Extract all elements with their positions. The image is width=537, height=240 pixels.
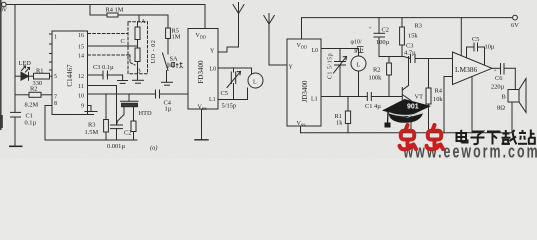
inductor L RX [351, 49, 366, 97]
resistor R1 1k RX [345, 97, 350, 133]
watermark graduation cap [382, 99, 431, 128]
svg-text:R2: R2 [373, 67, 380, 74]
svg-text:B: B [137, 68, 141, 75]
wire pin8 to ground rail [45, 106, 52, 141]
wire LED feed drop [14, 5, 16, 112]
wire pin16 dashed [88, 33, 128, 35]
svg-text:(a): (a) [150, 145, 157, 152]
svg-text:C3 0.1µ: C3 0.1µ [93, 64, 114, 71]
ground SA [162, 71, 173, 86]
IC U1 C14467 box [52, 31, 88, 115]
svg-text:16: 16 [78, 33, 84, 39]
svg-text:C1: C1 [26, 113, 33, 120]
ground C1 [10, 145, 22, 147]
svg-text:www.eeworm.com: www.eeworm.com [403, 142, 537, 159]
antenna TX [233, 3, 244, 48]
svg-text:JD3400: JD3400 [301, 80, 309, 102]
svg-text:R2: R2 [30, 86, 37, 93]
svg-text:L1: L1 [209, 97, 216, 103]
sensor chain vertical wire [137, 22, 139, 27]
capacitor C5 10u gain loop [467, 43, 485, 65]
svg-text:Y: Y [289, 65, 294, 71]
wire pin11 to C2 [88, 86, 117, 126]
svg-text:12: 12 [78, 74, 84, 80]
svg-text:C2: C2 [382, 27, 389, 34]
svg-text:LED: LED [19, 60, 32, 67]
wire LM386 minus input ground [444, 77, 453, 133]
svg-text:1µ: 1µ [165, 106, 172, 113]
op-amp U4 LM386 [453, 52, 493, 85]
svg-text:C3: C3 [406, 43, 413, 50]
capacitor C5 5/15p variable [227, 68, 241, 100]
svg-text:C6: C6 [495, 75, 502, 82]
svg-text:VSS: VSS [198, 105, 208, 112]
label ce shi (test) glyphs [168, 62, 183, 68]
svg-text:10: 10 [78, 94, 84, 100]
wire LM386 pin4 ground [471, 77, 473, 133]
svg-text:9V: 9V [0, 8, 8, 14]
wire Y pin to antenna [218, 47, 239, 52]
svg-text:VDD: VDD [196, 33, 207, 40]
svg-text:R3: R3 [415, 23, 422, 30]
capacitor C1 5/15p variable RX [334, 49, 347, 97]
svg-text:11: 11 [78, 84, 84, 90]
capacitor C2 100u RX [374, 18, 404, 57]
svg-text:5/15p: 5/15p [222, 103, 237, 110]
resistor R3 15k RX [400, 18, 405, 57]
svg-text:B: B [502, 94, 506, 101]
svg-text:R4: R4 [435, 88, 443, 95]
svg-text:4.7µ: 4.7µ [404, 50, 416, 57]
wire VSS to ground rail [300, 126, 302, 133]
resistor R2 100k [387, 57, 392, 97]
wire ground rail RX [301, 132, 513, 134]
wire LM386 pin6 supply [460, 18, 462, 56]
svg-text:VT: VT [415, 94, 424, 101]
IC U2 FD3400 box [188, 29, 218, 110]
wire VDD feed RX [301, 18, 303, 39]
svg-text:FD3400: FD3400 [197, 60, 205, 83]
svg-text:SA: SA [170, 56, 179, 63]
scan edge left border [0, 0, 2, 130]
capacitor C6 220u output [492, 64, 515, 90]
svg-text:1: 1 [354, 49, 357, 55]
svg-text:100µ: 100µ [376, 39, 390, 46]
svg-text:8.2M: 8.2M [25, 102, 39, 109]
svg-text:φ10/: φ10/ [351, 40, 362, 46]
svg-text:R3: R3 [88, 122, 95, 129]
svg-text:C14467: C14467 [66, 64, 74, 87]
antenna RX [264, 14, 275, 66]
svg-text:L0: L0 [210, 67, 217, 73]
svg-text:8: 8 [54, 101, 57, 107]
svg-text:VSS: VSS [297, 121, 307, 128]
resistor sensor upper [135, 27, 140, 40]
glyph xia [487, 132, 501, 145]
svg-text:C5: C5 [221, 90, 228, 97]
wire top rail 9V [6, 5, 205, 29]
capacitor C1 4u [367, 93, 402, 101]
svg-text:1k: 1k [336, 120, 343, 127]
wire tank bottom rail [218, 88, 248, 100]
svg-text:HTD: HTD [139, 110, 153, 117]
svg-text:C1 5/15p: C1 5/15p [328, 53, 334, 79]
svg-text:14: 14 [78, 54, 84, 60]
svg-text:L1: L1 [311, 97, 318, 103]
wire pin10 bus to C4 [88, 93, 155, 95]
glyph zhan [518, 130, 535, 144]
svg-text:10µ: 10µ [485, 44, 495, 51]
ground C3 [118, 81, 128, 84]
wire antenna to Y input [269, 64, 287, 66]
capacitor C4 1u [156, 90, 189, 98]
resistor sensor lower [135, 48, 140, 62]
watermark dian zi xia zai zhan glyphs [457, 130, 535, 145]
switch SA [163, 53, 169, 71]
svg-text:7: 7 [54, 95, 57, 101]
svg-text:1.5M: 1.5M [85, 129, 99, 136]
svg-text:C5: C5 [472, 36, 479, 43]
svg-text:+: + [494, 68, 497, 74]
scan blob left edge [0, 115, 3, 128]
svg-text:A: A [141, 18, 146, 25]
watermark red chong chong [400, 125, 444, 149]
resistor R2 8.2M [29, 92, 41, 97]
svg-text:C: C [121, 38, 125, 45]
svg-text:9: 9 [81, 104, 84, 110]
svg-text:100k: 100k [369, 75, 383, 82]
resonator HTD [117, 94, 139, 125]
resistor R5 1M [166, 15, 171, 54]
terminal 6V [513, 15, 518, 20]
wire pin15 to node C [88, 45, 138, 47]
svg-text:1: 1 [54, 35, 57, 41]
resistor R4 10k RX [426, 59, 431, 133]
capacitor C3 0.1u [103, 71, 123, 80]
svg-text:220µ: 220µ [491, 84, 505, 91]
wire node C segment [137, 40, 139, 49]
ground sensor chain [133, 80, 144, 83]
svg-text:8Ω: 8Ω [497, 105, 505, 112]
svg-text:R1: R1 [36, 68, 43, 75]
resistor R4 1M [90, 5, 168, 18]
glyph dian [457, 130, 468, 143]
IC1 pin numbers [54, 33, 84, 110]
wire pin14 dashed [88, 54, 130, 56]
capacitor C1 0.1u [11, 112, 21, 145]
wire node B segment [137, 62, 139, 81]
svg-text:LM386: LM386 [455, 65, 477, 74]
svg-text:10k: 10k [433, 96, 443, 103]
resistor HTD leg [131, 121, 136, 140]
ground FD3400 VSS [195, 109, 208, 140]
wire RX audio line L1 to base [321, 96, 367, 98]
wire pin12 to C3 [88, 74, 103, 76]
svg-text:0.001µ: 0.001µ [107, 143, 125, 150]
ground pin9 [85, 106, 97, 115]
wire RX tank top rail [321, 48, 359, 50]
svg-text:6V: 6V [511, 22, 519, 29]
transistor VT 9014 [402, 57, 411, 133]
wire top rail RX [302, 17, 513, 19]
resistor R1 330 [34, 73, 50, 79]
wire bottom rail TX [45, 139, 137, 141]
paper background [0, 0, 537, 159]
svg-text:R4 1M: R4 1M [106, 7, 124, 14]
paper noise [0, 0, 1, 1]
glyph zi [471, 132, 485, 145]
IC1 unused left pin ticks [50, 33, 53, 35]
svg-text:5: 5 [54, 74, 57, 80]
inductor L TX [248, 73, 263, 88]
svg-text:Y: Y [210, 49, 215, 55]
node A stub [138, 15, 140, 22]
glyph zai [502, 130, 517, 144]
resistor R3 1.5M [104, 94, 109, 140]
svg-text:L0: L0 [312, 48, 319, 54]
IC U3 JD3400 box [287, 39, 321, 126]
capacitor C3 4.7u [404, 55, 453, 63]
svg-text:UD - 02: UD - 02 [150, 40, 157, 64]
wire pin14 dashed elbow [130, 55, 135, 65]
LED [15, 66, 34, 80]
svg-text:VDD: VDD [297, 43, 308, 50]
svg-text:L: L [357, 63, 361, 69]
wire tank top rail [218, 68, 252, 74]
svg-text:C2: C2 [124, 130, 131, 137]
capacitor C2 0.001u [111, 125, 123, 140]
terminal 9V [2, 2, 7, 7]
label zuo (seat) glyph [357, 47, 364, 53]
svg-text:0.1µ: 0.1µ [25, 120, 37, 127]
svg-text:+: + [369, 26, 372, 32]
speaker B 8ohm [508, 79, 526, 133]
svg-text:1M: 1M [172, 34, 181, 41]
svg-text:901: 901 [407, 104, 419, 111]
svg-text:15k: 15k [408, 33, 418, 40]
svg-text:C1 4µ: C1 4µ [365, 103, 381, 110]
svg-text:15: 15 [78, 45, 84, 51]
svg-text:L: L [253, 80, 257, 86]
sensor UD-02 dashed box [128, 22, 148, 74]
